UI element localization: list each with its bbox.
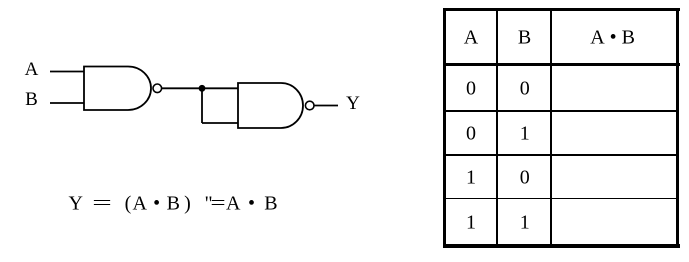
table header cell A [464, 26, 478, 49]
node N1 junction dot [199, 85, 206, 92]
truth table row separator 1 [446, 110, 676, 112]
wire A input [50, 71, 84, 73]
table row2 B value 1 [520, 122, 530, 145]
table row1 A value 0 [466, 78, 476, 101]
NAND gate U1 body [84, 67, 151, 111]
wire U1 output to node N1 [162, 87, 202, 89]
NAND gate U2 body (wired as inverter) [238, 83, 303, 128]
truth table column separator 1 [496, 11, 498, 245]
wire to U2 bottom input [202, 122, 238, 124]
input label B [25, 89, 38, 111]
wire node N1 to U2 top input [202, 87, 238, 89]
input label A [25, 59, 39, 81]
truth table outer border right [676, 8, 679, 249]
NAND gate U2 output bubble [305, 101, 314, 110]
table row3 A value 1 [466, 166, 476, 189]
table row4 A value 1 [466, 211, 476, 234]
wire U2 output to Y [314, 105, 338, 107]
table row1 B value 0 [520, 78, 530, 101]
truth table outer border bottom [443, 244, 680, 248]
truth table column separator 2 [550, 11, 552, 245]
table header cell A·B [590, 26, 635, 49]
truth table row separator 2 [446, 154, 676, 156]
truth table outer border left [443, 8, 446, 249]
wire node N1 down leg [201, 88, 203, 123]
circuit schematic SVG canvas [0, 0, 440, 262]
output label Y [346, 93, 360, 115]
table header cell B [518, 26, 531, 49]
truth table outer border top [443, 8, 680, 11]
table row2 A value 0 [466, 122, 476, 145]
wire B input [50, 102, 84, 104]
truth table header separator line [443, 63, 680, 66]
truth table row separator 3 [446, 198, 676, 200]
table row4 B value 1 [520, 211, 530, 234]
equation Y = (A·B)'' = A·B [0, 0, 1, 1]
table row3 B value 0 [520, 166, 530, 189]
NAND gate U1 output bubble [153, 84, 162, 93]
